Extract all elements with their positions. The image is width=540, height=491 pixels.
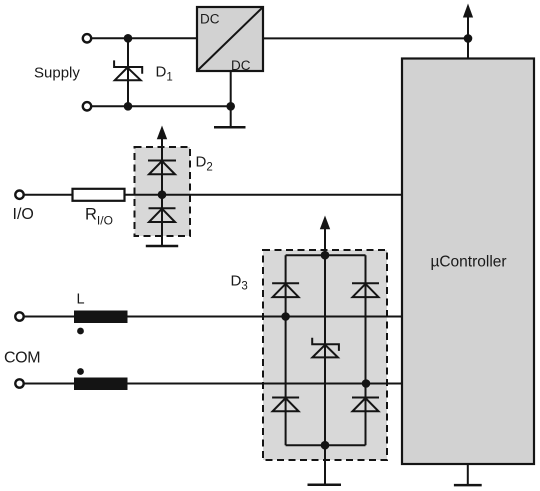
wire bridge top: [286, 254, 366, 256]
junction node Vcc: [464, 34, 473, 43]
wire I/O rail to uController: [124, 194, 402, 196]
svg-text:I/O: I/O: [13, 206, 34, 223]
terminal I/O: [15, 191, 23, 199]
ground D2: [146, 245, 178, 248]
ground D3: [308, 483, 342, 486]
ground DC/DC: [214, 126, 246, 129]
choke L winding top: [74, 311, 128, 324]
terminal L: [15, 312, 23, 320]
diode D2 lower: [149, 208, 176, 222]
wire D1 branch: [127, 38, 129, 106]
junction node L/bridge: [281, 312, 290, 321]
wire supply bottom rail: [91, 105, 232, 107]
wire COM rail to uController: [126, 383, 402, 385]
choke winding dot top: [77, 328, 84, 335]
choke winding dot bottom: [77, 368, 84, 375]
terminal Supply -: [83, 102, 91, 110]
wire DC/DC ground stub: [230, 71, 232, 127]
svg-text:Supply: Supply: [34, 65, 80, 82]
svg-text:µController: µController: [430, 254, 506, 271]
junction node bridge top: [321, 251, 330, 260]
wire DC/DC output rail: [263, 37, 469, 39]
diode D2 upper: [148, 161, 176, 175]
zener diode D1: [114, 60, 142, 80]
arrow D2 branch: [157, 126, 167, 140]
choke L winding bottom: [74, 378, 128, 391]
diode D3 upper-left: [272, 283, 299, 297]
junction node supply-/D1: [124, 102, 133, 111]
junction node COM/bridge: [362, 379, 371, 388]
wire bridge bottom: [286, 444, 366, 446]
terminal COM: [15, 379, 23, 387]
wire uController ground stub: [467, 463, 469, 485]
wire COM terminal segment: [24, 383, 76, 385]
wire bridge left branch: [285, 255, 287, 445]
junction node bridge bottom: [321, 441, 330, 450]
junction node DC/DC ground: [226, 102, 235, 111]
arrow D3 branch: [320, 216, 330, 230]
bridge clamp D3 dashed box: [263, 250, 387, 460]
junction node I/O/D2: [158, 190, 167, 199]
resistor R_I/O: [73, 189, 125, 201]
wire D3 center vertical: [324, 227, 326, 484]
DC/DC converter U1: [197, 7, 263, 73]
diode D3 upper-right: [352, 283, 379, 297]
wire L terminal segment: [24, 316, 76, 318]
svg-text:L: L: [77, 292, 85, 308]
arrow Vcc top: [463, 4, 473, 18]
junction node supply+/D1: [124, 34, 133, 43]
wire I/O left segment: [24, 194, 73, 196]
diode D3 lower-left: [272, 398, 299, 412]
wire supply top rail: [91, 37, 197, 39]
terminal Supply +: [83, 34, 91, 42]
diode D3 lower-right: [352, 398, 379, 412]
TVS array D2 dashed box: [135, 147, 191, 236]
svg-text:COM: COM: [4, 349, 40, 366]
wire bridge right branch: [365, 255, 367, 445]
wire L rail to uController: [126, 316, 402, 318]
ground uController: [454, 484, 482, 487]
zener diode D3 center: [312, 338, 339, 358]
svg-text:DC: DC: [200, 12, 220, 27]
wire vcc stub to uController: [467, 14, 469, 59]
svg-text:DC: DC: [231, 58, 251, 73]
wire D2 branch vertical: [161, 135, 163, 246]
uController U2: [402, 59, 534, 465]
